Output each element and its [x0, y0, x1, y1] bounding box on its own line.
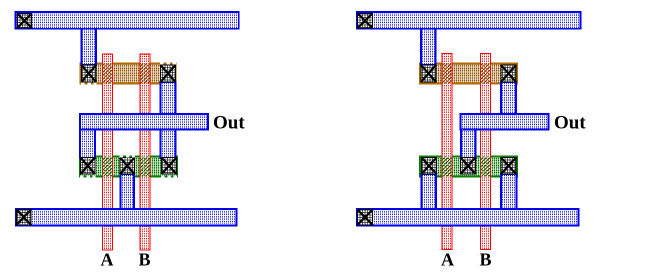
dashed diffusion border above p-diff drain contact (left cell) — [160, 63, 176, 65]
n-diffusion region (left cell) — [80, 157, 177, 177]
nMOS gate A (left cell) — [103, 157, 113, 177]
metal VDD rail (right cell) — [357, 12, 581, 29]
metal GND rail (right cell) — [357, 209, 579, 226]
metal wire: n-diffusion middle contact down to GND rail (left cell) — [121, 174, 135, 210]
label B (left cell) — [138, 250, 150, 270]
n-diffusion region (right cell) — [420, 157, 517, 177]
poly input A (right cell) — [442, 54, 452, 250]
pMOS gate B (left cell) — [140, 64, 150, 84]
dashed diffusion border below n-diff left contact (left cell) — [80, 176, 96, 178]
pMOS gate A (left cell) — [103, 64, 113, 84]
p-diffusion region (left cell) — [81, 64, 176, 84]
nMOS gate B (left cell) — [140, 157, 150, 177]
label A (right cell) — [441, 250, 454, 270]
contact: p-diffusion source (left cell) — [82, 65, 97, 82]
svg-text:Out: Out — [213, 113, 245, 134]
label Out (right cell) — [554, 113, 586, 134]
metal VDD rail (left cell) — [16, 12, 239, 29]
contact: p-diffusion drain (right cell) — [501, 65, 516, 82]
dashed diffusion border below n-diff middle contact (right cell) — [460, 176, 477, 178]
dashed diffusion border above p-diff drain contact (right cell) — [501, 63, 517, 65]
label B (right cell) — [479, 250, 491, 270]
dashed diffusion border above n-diff right contact (right cell) — [501, 156, 517, 158]
label Out (left cell) — [213, 113, 245, 134]
svg-text:A: A — [441, 250, 454, 270]
poly input B (left cell) — [140, 54, 150, 250]
dashed diffusion border below n-diff right contact (left cell) — [161, 176, 177, 178]
metal wire: p-diffusion drain contact down to Out bar (left cell) — [161, 82, 176, 115]
metal wire: VDD rail to p-diffusion source contact (right cell) — [421, 26, 436, 65]
contact: p-diffusion source (right cell) — [421, 65, 436, 82]
metal wire: p-diffusion drain contact down to Out bar (right cell) — [501, 82, 516, 115]
svg-text:A: A — [101, 250, 114, 270]
pMOS gate A (right cell) — [442, 64, 452, 84]
dashed diffusion border above n-diff middle contact (left cell) — [120, 156, 136, 158]
contact: n-diffusion right / Out (left cell) — [162, 158, 177, 175]
dashed diffusion border below p-diff source contact (left cell) — [81, 83, 97, 85]
contact: VDD rail (right cell) — [358, 14, 373, 29]
contact: VDD rail (left cell) — [18, 14, 32, 29]
dashed diffusion border below p-diff source contact (right cell) — [421, 83, 437, 85]
metal GND rail (left cell) — [16, 209, 237, 226]
contact: n-diffusion right / GND (right cell) — [501, 158, 516, 175]
pMOS gate B (right cell) — [481, 64, 491, 84]
metal wire: n-diffusion right contact down to GND rail (right cell) — [501, 174, 517, 210]
svg-text:B: B — [479, 250, 491, 270]
metal wire: Out bar to n-diffusion right contact (left cell) — [161, 128, 176, 158]
metal wire: n-diffusion left contact down to GND rail (right cell) — [422, 174, 437, 210]
contact: GND rail (right cell) — [358, 210, 373, 226]
contact: n-diffusion left / Out (left cell) — [81, 158, 96, 175]
svg-text:Out: Out — [554, 113, 586, 134]
metal Out bar (left cell) — [80, 114, 208, 130]
p-diffusion region (right cell) — [420, 64, 517, 84]
contact: n-diffusion middle / Out (right cell) — [461, 158, 476, 175]
metal wire: Out bar to n-diffusion left contact (left cell) — [80, 128, 95, 158]
dashed diffusion border above n-diff left contact (right cell) — [421, 156, 437, 158]
label A (left cell) — [101, 250, 114, 270]
poly input B (right cell) — [481, 54, 491, 250]
poly input A (left cell) — [103, 54, 113, 250]
metal wire: Out bar to n-diffusion middle contact (right cell) — [461, 128, 476, 158]
contact: n-diffusion left / GND (right cell) — [422, 158, 437, 175]
nMOS gate A (right cell) — [442, 157, 452, 177]
svg-text:B: B — [138, 250, 150, 270]
metal Out bar (right cell) — [461, 114, 549, 130]
contact: p-diffusion drain (left cell) — [161, 65, 176, 82]
contact: n-diffusion middle / GND (left cell) — [120, 158, 135, 175]
contact: GND rail (left cell) — [17, 210, 32, 226]
metal wire: VDD rail to p-diffusion source contact (left cell) — [82, 26, 97, 65]
nMOS gate B (right cell) — [481, 157, 491, 177]
